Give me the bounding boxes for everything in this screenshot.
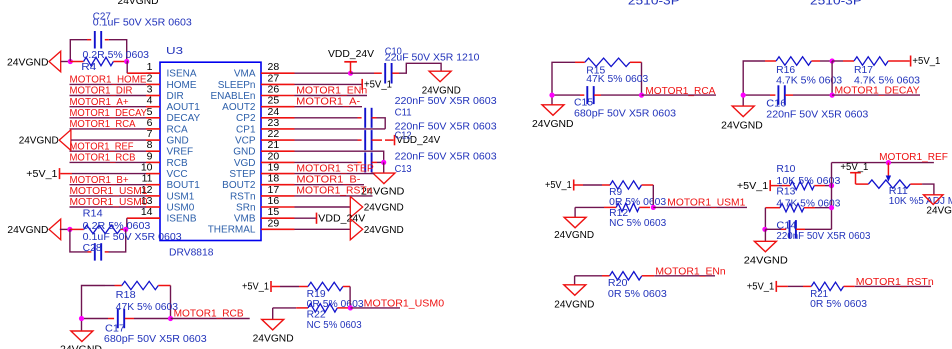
- wire R16/R17 junction riser: [831, 61, 833, 95]
- ground 24VGND port (R4 net): [49, 51, 61, 72]
- wire net MOTOR1_RSTn: [855, 285, 931, 287]
- power +5V_1 (R19): [270, 281, 272, 292]
- svg-text:22uF 50V X5R 1210: 22uF 50V X5R 1210: [385, 53, 480, 64]
- capacitor C15: [586, 86, 588, 104]
- wire pin7 GND: [71, 139, 146, 141]
- svg-text:VGD: VGD: [234, 158, 256, 169]
- wire pin20 VGD: [295, 161, 358, 163]
- svg-text:VDD_24V: VDD_24V: [318, 214, 365, 225]
- capacitor C16: [777, 85, 779, 105]
- pin 9 (RCB) stub: [146, 161, 160, 163]
- wire net MOTOR1_ENn: [295, 95, 368, 97]
- capacitor C10: [384, 63, 386, 84]
- svg-text:MOTOR1_REF: MOTOR1_REF: [70, 140, 134, 152]
- wire C17 bottom: [82, 318, 109, 320]
- wire C11 to pin23 CP1: [372, 117, 377, 119]
- pin 15 (VMB) stub: [261, 217, 295, 219]
- wire R12 to ground: [574, 207, 576, 217]
- svg-text:R18: R18: [116, 290, 136, 301]
- svg-text:26: 26: [268, 84, 280, 96]
- ground 24VGND (R12): [564, 217, 586, 228]
- ground 24VGND port (R14 net): [49, 219, 61, 240]
- svg-text:24VGND: 24VGND: [364, 203, 404, 214]
- ground 24VGND (R16): [732, 106, 754, 117]
- svg-text:MOTOR1_ENn: MOTOR1_ENn: [655, 265, 725, 277]
- svg-text:R16: R16: [776, 65, 795, 76]
- svg-text:2510-3P: 2510-3P: [628, 0, 680, 8]
- svg-text:CP1: CP1: [236, 124, 256, 135]
- pin 22 (VCP) stub: [261, 139, 295, 141]
- wire pin28 VMA: [295, 72, 351, 74]
- wire R18 left: [82, 286, 106, 332]
- pin 11 (BOUT1) stub: [146, 184, 160, 186]
- svg-text:+5V_1: +5V_1: [912, 56, 940, 67]
- wire C27 loop: [70, 40, 87, 62]
- svg-text:DRV8818: DRV8818: [169, 247, 214, 259]
- ground 24VGND (R11): [924, 195, 944, 205]
- wire R13 left riser: [764, 208, 766, 230]
- svg-text:R10: R10: [776, 164, 795, 175]
- resistor R12: [575, 206, 604, 208]
- svg-text:47K 5% 0603: 47K 5% 0603: [586, 74, 648, 85]
- wire R19 to junction: [349, 287, 351, 308]
- wire R9 to junction: [652, 185, 654, 207]
- svg-text:MOTOR1_DECAY: MOTOR1_DECAY: [835, 85, 920, 97]
- resistor R17: [832, 60, 843, 62]
- wire pin29 THERMAL: [295, 228, 351, 230]
- wire R16-R17: [820, 60, 832, 62]
- svg-text:3: 3: [147, 84, 153, 96]
- resistor R9: [575, 184, 584, 186]
- ground 24VGND (R22): [262, 319, 284, 330]
- wire net MOTOR1_REF: [70, 150, 147, 152]
- wire R15 left: [552, 62, 575, 105]
- svg-text:2510-3P: 2510-3P: [810, 0, 862, 8]
- svg-text:24VGND: 24VGND: [532, 119, 574, 130]
- wire net MOTOR1_A-: [295, 106, 363, 108]
- svg-text:USM1: USM1: [167, 191, 195, 202]
- junction R13 node: [829, 205, 834, 210]
- svg-text:680pF 50V X5R 0603: 680pF 50V X5R 0603: [104, 334, 207, 345]
- wire R15 right riser: [641, 62, 643, 95]
- svg-text:24VGND: 24VGND: [7, 57, 48, 68]
- wire REF node riser: [831, 163, 833, 230]
- svg-text:RCB: RCB: [167, 158, 188, 169]
- pin 27 (SLEEPn) stub: [261, 83, 295, 85]
- resistor R14: [70, 228, 84, 230]
- capacitor C11: [364, 108, 366, 128]
- junction R14 left: [67, 227, 72, 232]
- svg-text:NC 5% 0603: NC 5% 0603: [609, 218, 666, 229]
- svg-text:BOUT1: BOUT1: [167, 180, 201, 191]
- svg-text:24VGND: 24VGND: [422, 86, 461, 97]
- wire pin27 SLEEPn: [295, 83, 362, 85]
- svg-text:SLEEPn: SLEEPn: [218, 80, 256, 91]
- pin 4 (AOUT1) stub: [146, 106, 160, 108]
- svg-text:220nF 50V X5R 0603: 220nF 50V X5R 0603: [776, 231, 870, 242]
- svg-text:1: 1: [147, 61, 153, 73]
- pin 14 (ISENB) stub: [146, 217, 160, 219]
- potentiometer R11: [856, 183, 869, 185]
- capacitor C13: [364, 152, 366, 172]
- svg-text:C17: C17: [105, 323, 125, 334]
- svg-text:SRn: SRn: [236, 202, 255, 213]
- power VDD_24V (pin 15): [316, 213, 318, 224]
- ground 24VGND (C13): [373, 173, 395, 184]
- pin 12 (USM1) stub: [146, 195, 160, 197]
- svg-text:+5V_1: +5V_1: [840, 162, 868, 173]
- pin 3 (DIR) stub: [146, 95, 160, 97]
- svg-text:24VGND: 24VGND: [721, 121, 763, 132]
- junction MOTOR1_RCA: [639, 93, 644, 98]
- pin 10 (VCC) stub: [146, 173, 160, 175]
- pin 6 (RCA) stub: [146, 128, 160, 130]
- svg-text:21: 21: [268, 139, 280, 151]
- wire net MOTOR1_STEP: [295, 173, 375, 175]
- pin 13 (USM0) stub: [146, 206, 160, 208]
- svg-text:C16: C16: [766, 99, 786, 110]
- wire to ground: [764, 229, 766, 241]
- pin 1 (ISENA) stub: [146, 72, 160, 74]
- wire net MOTOR1_B+: [70, 184, 147, 186]
- svg-text:R19: R19: [307, 289, 326, 300]
- wire VMA to C10: [351, 72, 375, 74]
- wire R11 to ground: [922, 184, 934, 195]
- power +5V_1 (R9): [573, 180, 575, 191]
- junction R16/R17: [830, 58, 835, 63]
- svg-text:20: 20: [268, 150, 280, 162]
- pin 8 (VREF) stub: [146, 150, 160, 152]
- svg-text:11: 11: [142, 173, 153, 185]
- pin 26 (ENABLEn) stub: [261, 95, 295, 97]
- svg-text:AOUT1: AOUT1: [167, 102, 201, 113]
- junction R10 node: [829, 183, 834, 188]
- svg-text:BOUT2: BOUT2: [222, 180, 256, 191]
- wire net MOTOR1_RCB: [171, 318, 250, 320]
- wire net MOTOR1_USM1: [70, 195, 147, 197]
- svg-text:STEP: STEP: [229, 169, 255, 180]
- svg-text:ISENA: ISENA: [167, 69, 197, 80]
- resistor R19: [272, 286, 280, 288]
- svg-text:+5V_1: +5V_1: [747, 282, 775, 293]
- pin 17 (RSTn) stub: [261, 195, 295, 197]
- power VDD_24V (pin 28): [350, 62, 352, 73]
- pin 28 (VMA) stub: [261, 72, 295, 74]
- wire C12 to VDD_24V: [372, 139, 382, 141]
- svg-text:MOTOR1_RCB: MOTOR1_RCB: [174, 307, 244, 319]
- svg-text:C12: C12: [395, 130, 412, 141]
- svg-text:C13: C13: [395, 164, 412, 175]
- wire to ground: [383, 162, 385, 173]
- svg-text:24VGND: 24VGND: [554, 300, 594, 311]
- capacitor C28: [94, 243, 96, 260]
- svg-text:MOTOR1_DIR: MOTOR1_DIR: [70, 85, 133, 97]
- svg-text:MOTOR1_ENn: MOTOR1_ENn: [296, 84, 367, 96]
- svg-text:USM0: USM0: [167, 202, 195, 213]
- svg-text:MOTOR1_USM0: MOTOR1_USM0: [364, 297, 445, 309]
- svg-text:24VGND: 24VGND: [118, 0, 159, 7]
- wire R20 to ground: [574, 276, 576, 285]
- svg-text:+5V_1: +5V_1: [364, 80, 392, 91]
- resistor R13: [765, 207, 780, 209]
- svg-text:R22: R22: [307, 310, 326, 321]
- wire C15 bottom: [552, 94, 580, 96]
- svg-text:MOTOR1_RSTn: MOTOR1_RSTn: [856, 276, 934, 288]
- power +5V_1 (R11): [850, 172, 861, 174]
- svg-text:U3: U3: [166, 45, 183, 57]
- svg-text:0.1uF 50V X5R 0603: 0.1uF 50V X5R 0603: [83, 232, 182, 243]
- wire net MOTOR1_USM0: [350, 307, 400, 309]
- capacitor C12: [364, 130, 366, 150]
- svg-text:DIR: DIR: [167, 91, 184, 102]
- wire C10 to ground: [392, 72, 399, 74]
- resistor R21: [777, 285, 788, 287]
- ground 24VGND port (pin 16): [350, 197, 362, 218]
- svg-text:MOTOR1_REF: MOTOR1_REF: [879, 151, 948, 163]
- svg-text:MOTOR1_B+: MOTOR1_B+: [70, 174, 129, 186]
- svg-text:MOTOR1_B-: MOTOR1_B-: [296, 174, 361, 186]
- wire net MOTOR1_ENn: [654, 275, 715, 277]
- resistor R22: [273, 307, 297, 309]
- junction MOTOR1_USM0: [348, 305, 353, 310]
- wire net MOTOR1_DECAY: [832, 94, 920, 96]
- pin 24 (CP2) stub: [261, 117, 295, 119]
- op-amp U3 DRV8818 body: [160, 62, 261, 240]
- pin 21 (GND) stub: [261, 150, 295, 152]
- wire net MOTOR1_REF: [832, 162, 934, 164]
- svg-text:18: 18: [268, 173, 280, 185]
- wire C28 loop: [70, 229, 88, 252]
- svg-text:0.2R 5% 0603: 0.2R 5% 0603: [83, 221, 151, 232]
- wire pin22 VCP: [295, 139, 358, 141]
- pin 19 (STEP) stub: [261, 173, 295, 175]
- svg-text:C15: C15: [574, 98, 593, 109]
- resistor R20: [575, 275, 602, 277]
- svg-text:680pF 50V X5R 0603: 680pF 50V X5R 0603: [574, 108, 676, 119]
- power +5V_1 (R10): [769, 180, 771, 191]
- wire 24VGND to R14: [60, 228, 70, 230]
- svg-text:DECAY: DECAY: [167, 113, 201, 124]
- wire net MOTOR1_RCA: [70, 128, 147, 130]
- svg-text:24VGND: 24VGND: [60, 345, 102, 349]
- wire C16 bottom: [743, 94, 770, 96]
- svg-text:16: 16: [268, 195, 280, 207]
- junction C14 left: [762, 227, 767, 232]
- svg-text:R20: R20: [608, 278, 628, 289]
- svg-text:MOTOR1_RCA: MOTOR1_RCA: [645, 85, 715, 97]
- svg-text:NC 5% 0603: NC 5% 0603: [307, 320, 362, 331]
- wire C13 to ground node: [372, 161, 377, 163]
- junction MOTOR1_USM1: [651, 205, 656, 210]
- svg-text:GND: GND: [233, 147, 255, 158]
- svg-text:24VGND: 24VGND: [744, 255, 788, 266]
- resistor R18: [105, 285, 115, 287]
- wire R22 to ground: [272, 308, 274, 320]
- svg-text:VCC: VCC: [167, 169, 188, 180]
- ground 24VGND port (pin 7): [59, 130, 71, 151]
- wire net MOTOR1_A+: [70, 106, 147, 108]
- svg-text:+5V_1: +5V_1: [737, 181, 769, 192]
- ground 24VGND (R20): [564, 285, 586, 296]
- junction MOTOR1_DECAY: [830, 93, 835, 98]
- svg-text:AOUT2: AOUT2: [222, 102, 256, 113]
- pin 16 (SRn) stub: [261, 206, 295, 208]
- svg-text:+5V_1: +5V_1: [242, 282, 269, 293]
- svg-text:R17: R17: [854, 65, 873, 76]
- svg-text:24VGND: 24VGND: [364, 225, 404, 236]
- junction R4 right: [124, 59, 129, 64]
- pin 5 (DECAY) stub: [146, 117, 160, 119]
- wire net MOTOR1_B-: [295, 184, 365, 186]
- svg-text:MOTOR1_RSTn: MOTOR1_RSTn: [296, 185, 372, 197]
- pin 18 (BOUT2) stub: [261, 184, 295, 186]
- wire net MOTOR1_RCB: [70, 161, 147, 163]
- svg-text:MOTOR1_RCA: MOTOR1_RCA: [70, 118, 136, 130]
- wire net MOTOR1_HOME: [70, 83, 147, 85]
- svg-text:VCP: VCP: [235, 136, 256, 147]
- svg-text:GND: GND: [167, 136, 189, 147]
- pin 2 (HOME) stub: [146, 83, 160, 85]
- svg-text:0.2R 5% 0603: 0.2R 5% 0603: [83, 50, 150, 61]
- svg-text:MOTOR1_A-: MOTOR1_A-: [296, 96, 361, 108]
- svg-text:+5V_1: +5V_1: [545, 180, 572, 191]
- power +5V_1 (pin 27): [361, 79, 363, 90]
- svg-text:ENABLEn: ENABLEn: [210, 91, 255, 102]
- capacitor C27: [94, 31, 96, 49]
- junction MOTOR1_RCB: [168, 316, 173, 321]
- svg-text:24VGND: 24VGND: [19, 135, 59, 146]
- capacitor C14: [789, 220, 791, 239]
- svg-text:220nF 50V X5R 0603: 220nF 50V X5R 0603: [766, 110, 868, 121]
- wire R16 left: [743, 61, 765, 106]
- junction R14 right: [123, 227, 128, 232]
- svg-text:0.1uF 50V X5R 0603: 0.1uF 50V X5R 0603: [93, 17, 192, 28]
- wire pin23 CP1: [295, 128, 386, 130]
- svg-text:ISENB: ISENB: [167, 214, 197, 225]
- junction C15 left: [549, 93, 554, 98]
- ground 24VGND (R18): [71, 331, 93, 342]
- svg-text:24VGND: 24VGND: [926, 206, 952, 217]
- svg-text:220nF 50V X5R 0603: 220nF 50V X5R 0603: [395, 151, 497, 162]
- ground 24VGND (C10): [429, 71, 451, 82]
- wire pin15 VMB: [295, 217, 317, 219]
- svg-text:24VGND: 24VGND: [253, 333, 294, 344]
- wire R18 right riser: [170, 286, 172, 319]
- pin 25 (AOUT2) stub: [261, 106, 295, 108]
- junction C17 left: [79, 316, 84, 321]
- junction R4 left: [68, 59, 73, 64]
- svg-text:RCA: RCA: [167, 124, 188, 135]
- resistor R16: [765, 60, 776, 62]
- wire pin14 to R14: [127, 217, 160, 219]
- svg-text:220nF 50V X5R 0603: 220nF 50V X5R 0603: [395, 96, 497, 107]
- potentiometer R11 wiper: [887, 163, 889, 176]
- wire pin24 CP2: [295, 117, 358, 119]
- svg-text:MOTOR1_USM1: MOTOR1_USM1: [667, 196, 745, 208]
- resistor R4: [70, 61, 83, 63]
- wire net MOTOR1_DECAY: [70, 117, 147, 119]
- ground 24VGND (C14): [754, 241, 776, 252]
- svg-text:R4: R4: [81, 62, 96, 73]
- wire pin21 GND: [295, 151, 384, 162]
- svg-text:VREF: VREF: [167, 147, 194, 158]
- wire net MOTOR1_RSTn: [295, 195, 373, 197]
- svg-text:24VGND: 24VGND: [554, 230, 594, 241]
- power VDD_24V (C12): [394, 135, 396, 145]
- svg-text:RSTn: RSTn: [230, 191, 256, 202]
- svg-text:HOME: HOME: [167, 80, 197, 91]
- svg-text:R13: R13: [776, 186, 795, 197]
- svg-text:0R 5% 0603: 0R 5% 0603: [608, 289, 667, 300]
- svg-text:C11: C11: [395, 107, 412, 118]
- ground 24VGND (R15): [542, 105, 564, 116]
- svg-text:VMB: VMB: [234, 214, 256, 225]
- junction VMA/VDD_24V: [348, 71, 353, 76]
- ground 24VGND port (pin 29): [350, 219, 362, 240]
- power +5V_1 (R17): [910, 56, 912, 67]
- svg-text:6: 6: [147, 117, 153, 129]
- pin 29 (THERMAL) stub: [261, 228, 295, 230]
- wire net MOTOR1_RCA: [642, 94, 717, 96]
- resistor R10: [771, 185, 779, 187]
- svg-text:28: 28: [268, 61, 280, 73]
- wire R4 to pin 1: [126, 62, 129, 74]
- svg-text:+5V_1: +5V_1: [26, 169, 58, 180]
- svg-text:MOTOR1_USM0: MOTOR1_USM0: [70, 196, 148, 208]
- wire pin10 +5V_1: [60, 173, 72, 175]
- svg-text:CP2: CP2: [236, 113, 256, 124]
- svg-text:VDD_24V: VDD_24V: [328, 49, 374, 60]
- svg-text:0R 5% 0603: 0R 5% 0603: [810, 299, 867, 310]
- wire 24VGND to R4: [61, 61, 71, 63]
- power +5V_1 (pin 10): [59, 168, 61, 179]
- pin 7 (GND) stub: [146, 139, 160, 141]
- wire net MOTOR1_DIR: [70, 95, 147, 97]
- wire pin16 SRn: [295, 206, 351, 208]
- resistor R15: [575, 61, 585, 63]
- wire net MOTOR1_USM0: [70, 206, 147, 208]
- svg-text:8: 8: [147, 139, 153, 151]
- junction C13/GND: [381, 160, 386, 165]
- svg-text:C28: C28: [83, 243, 102, 254]
- pin 20 (VGD) stub: [261, 161, 295, 163]
- svg-text:23: 23: [268, 117, 280, 129]
- capacitor C17: [117, 309, 119, 328]
- wire C14 bottom: [765, 228, 781, 230]
- svg-text:VMA: VMA: [234, 69, 256, 80]
- svg-text:R14: R14: [83, 208, 103, 219]
- svg-text:29: 29: [268, 217, 280, 229]
- svg-text:9: 9: [147, 150, 153, 162]
- power +5V_1 (R21): [775, 281, 777, 292]
- wire net MOTOR1_USM1: [653, 206, 747, 208]
- svg-text:THERMAL: THERMAL: [208, 225, 256, 236]
- svg-text:MOTOR1_RCB: MOTOR1_RCB: [70, 152, 136, 164]
- junction C16 left: [741, 93, 746, 98]
- junction REF wiper: [886, 160, 891, 165]
- pin 23 (CP1) stub: [261, 128, 295, 130]
- svg-text:24VGND: 24VGND: [7, 225, 48, 236]
